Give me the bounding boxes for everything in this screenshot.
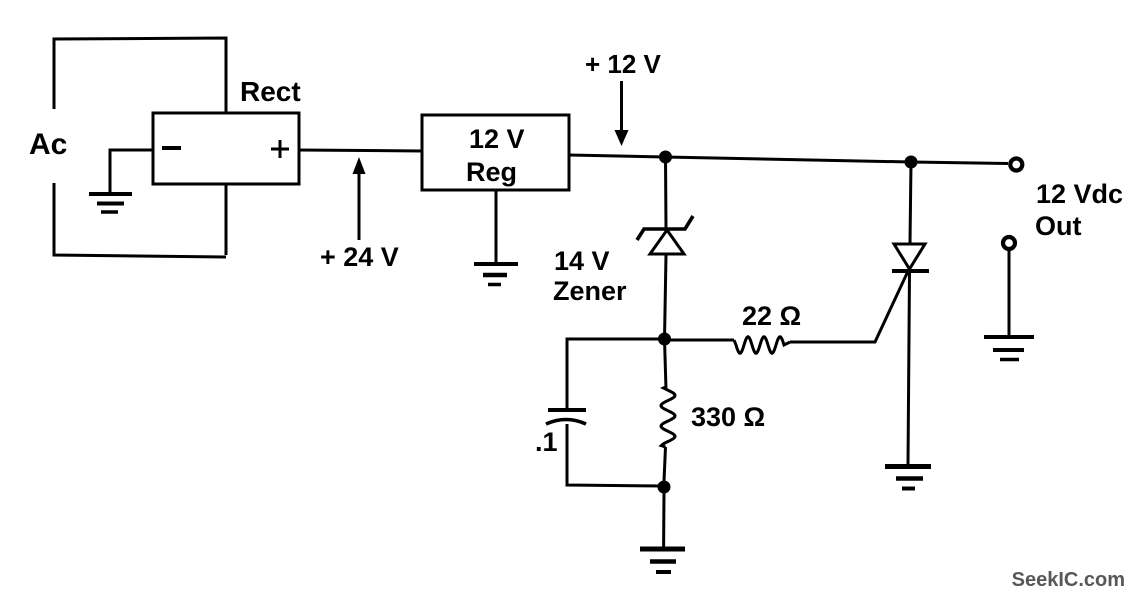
svg-text:12 V: 12 V — [469, 124, 525, 154]
svg-text:+ 24 V: + 24 V — [320, 242, 399, 272]
svg-text:14 V: 14 V — [554, 246, 610, 276]
svg-text:Ac: Ac — [29, 128, 67, 161]
svg-text:SeekIC.com: SeekIC.com — [1012, 569, 1125, 591]
svg-text:Zener: Zener — [553, 276, 627, 306]
svg-text:Rect: Rect — [240, 76, 301, 107]
svg-text:Reg: Reg — [466, 157, 517, 187]
svg-text:Out: Out — [1035, 211, 1082, 241]
svg-text:+ 12 V: + 12 V — [585, 49, 662, 79]
svg-text:330 Ω: 330 Ω — [691, 402, 765, 432]
svg-text:.1: .1 — [535, 427, 558, 457]
svg-text:22 Ω: 22 Ω — [742, 301, 801, 331]
svg-text:12 Vdc: 12 Vdc — [1036, 179, 1123, 209]
